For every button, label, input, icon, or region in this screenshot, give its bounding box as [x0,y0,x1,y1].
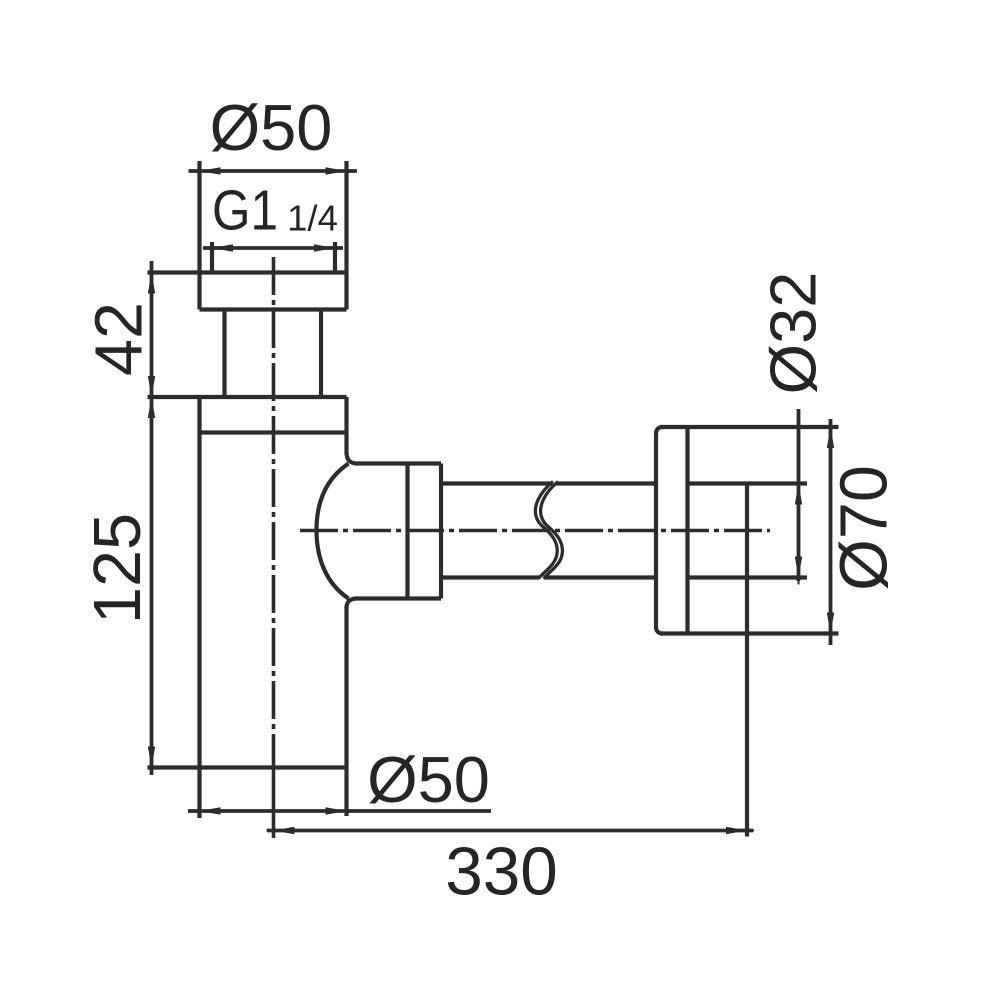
svg-text:Ø50: Ø50 [210,91,333,164]
wall line / 330 extension [745,484,749,837]
flange bottom edge and D70 extension [660,631,839,635]
nut top edge with left extension [148,270,347,274]
flange cap left outline [656,427,663,634]
extension line / nut right side [344,161,348,310]
thread stub left [210,242,214,273]
svg-text:Ø70: Ø70 [828,465,902,591]
pipe break squiggle left [535,482,557,579]
outlet nut left wall [405,464,409,599]
body bottom edge with left extension [148,765,347,769]
svg-text:Ø32: Ø32 [757,272,830,395]
dimension label D70 [828,465,902,591]
dimension line D32 [795,409,802,585]
dimension line G1 1/4 [203,244,343,251]
thread label G1 1/4 [212,179,338,243]
pipe bottom wall through flange and D32 extension [688,575,808,579]
body right wall upper [344,397,348,454]
svg-text:42: 42 [83,302,157,376]
extension line / nut left side [197,161,201,310]
svg-text:Ø50: Ø50 [367,743,490,816]
svg-text:125: 125 [81,513,155,624]
dimension label 330 [445,835,558,910]
thread stub right [333,242,337,273]
svg-text:G1: G1 [212,179,278,243]
dimension line D50 top [189,167,358,174]
flange divider [685,427,689,634]
body right wall lower and D50 extension [344,606,348,816]
pipe break squiggle right [541,482,563,579]
body collar line [201,430,345,434]
pipe top wall through flange and D32 extension [688,481,808,485]
dimension line D70 [827,419,834,645]
dimension label D50 bottom [367,743,490,816]
dimension line D50 bottom [188,807,491,814]
pipe horizontal centerline [300,529,770,533]
outlet top corner [347,452,442,464]
dimension label 42 [83,302,157,376]
outlet bulge arc [317,464,349,599]
pipe bottom wall left of break [442,575,540,579]
pipe bottom wall right of break [544,575,657,579]
vertical centerline of body [272,257,276,838]
pipe top wall right of break [557,481,657,485]
svg-text:330: 330 [445,835,558,910]
dimension label 125 [81,513,155,624]
tailpiece left wall [222,310,226,398]
outlet nut right wall [439,464,443,599]
nut bottom edge [200,307,347,311]
dimension label D50 top [210,91,333,164]
flange top edge and D70 extension [660,425,839,429]
tailpiece right wall [319,310,323,398]
svg-text:1/4: 1/4 [287,198,338,239]
dimension label D32 [757,272,830,395]
pipe top wall left of break [442,481,553,485]
dimension line 42 and 125 [148,261,155,775]
body top edge with left extension [148,395,347,399]
dimension line 330 [267,827,755,834]
body left wall and D50 extension [197,397,201,818]
outlet bottom corner [347,599,442,609]
